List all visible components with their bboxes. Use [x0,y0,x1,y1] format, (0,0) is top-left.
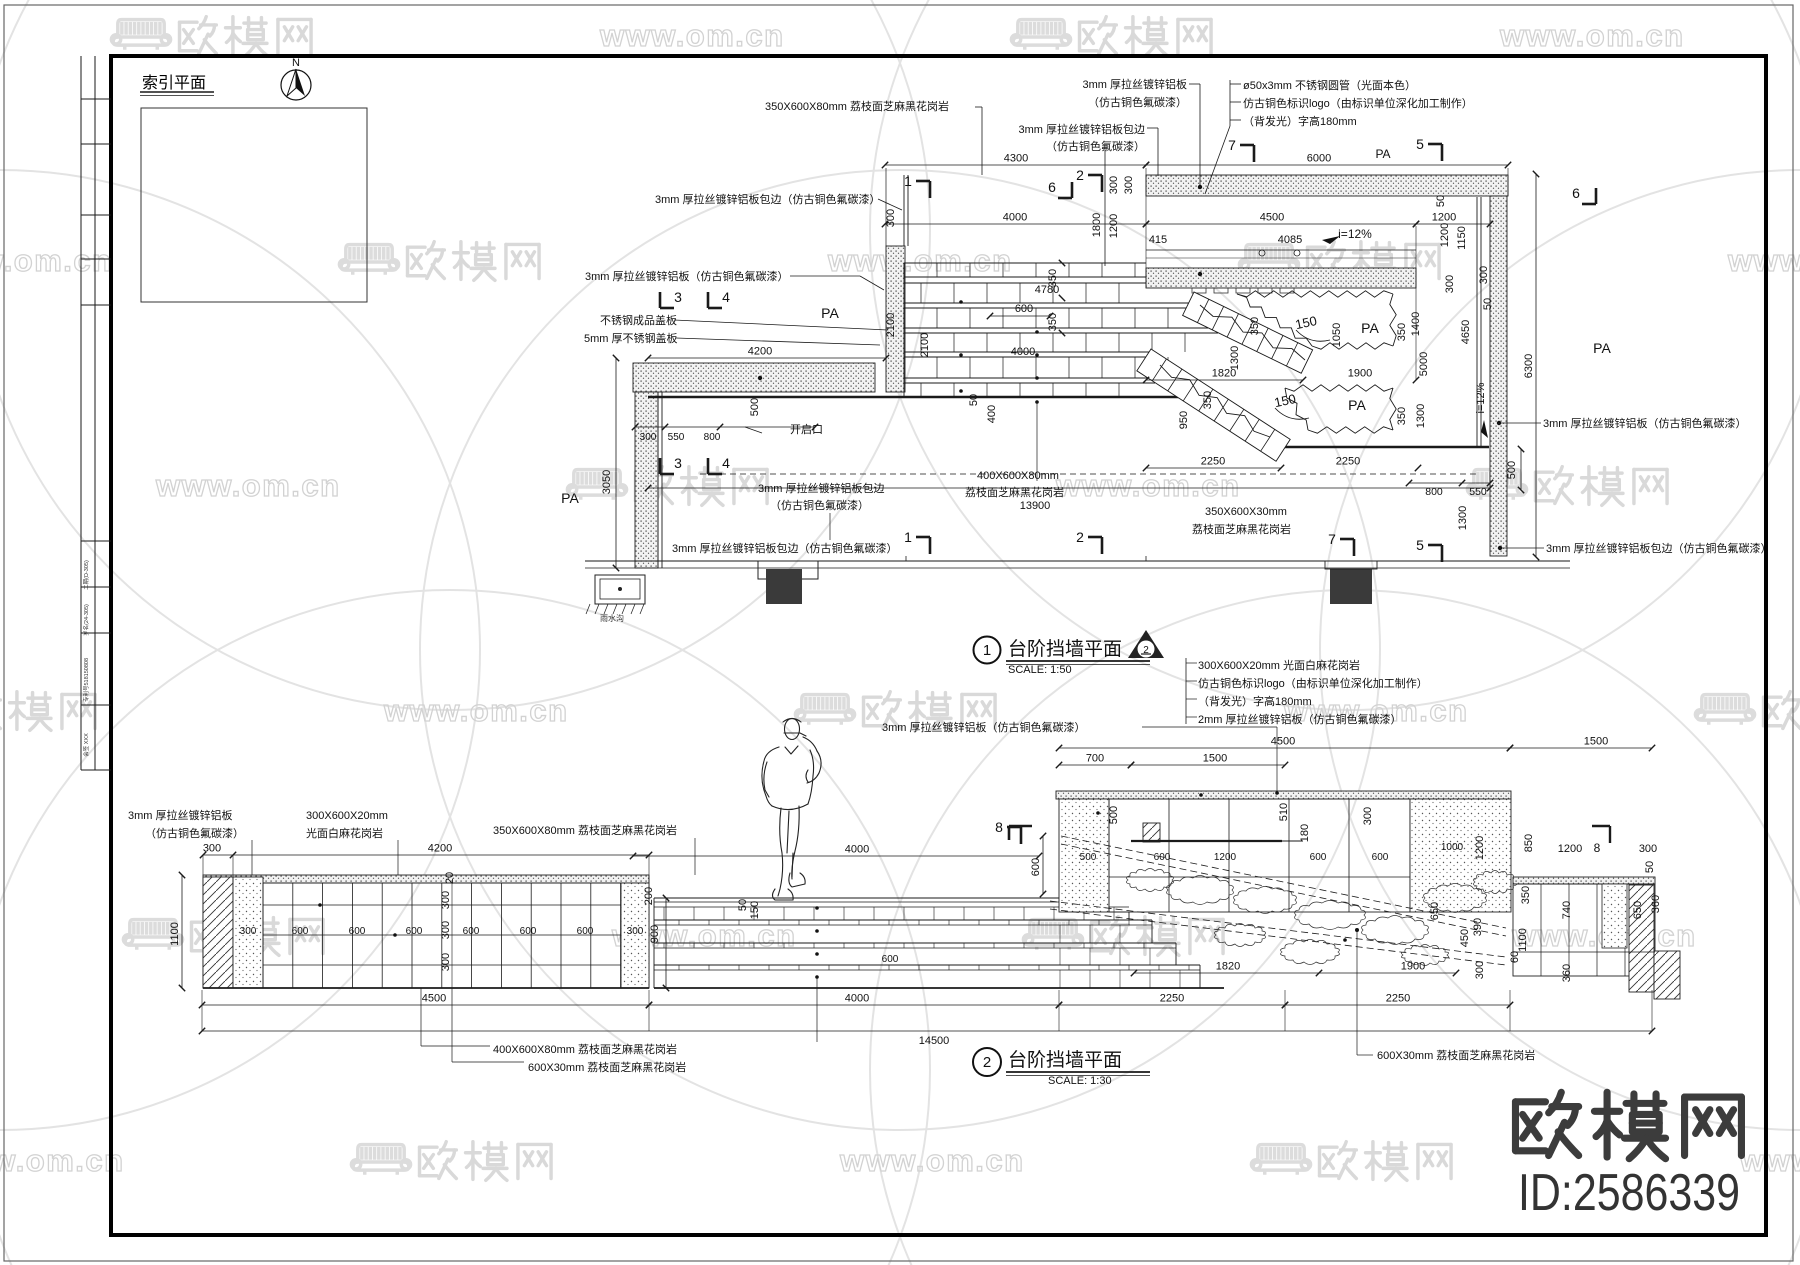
svg-text:350X600X80mm 荔枝面芝麻黑花岗岩: 350X600X80mm 荔枝面芝麻黑花岗岩 [493,823,677,837]
svg-text:300: 300 [627,926,644,937]
svg-text:1: 1 [904,173,912,189]
svg-text:1: 1 [904,529,912,545]
svg-text:850: 850 [1523,834,1535,852]
svg-text:www.om.cn: www.om.cn [827,243,1013,278]
svg-text:800: 800 [704,432,721,443]
svg-text:3mm 厚拉丝镀锌铝板包边（仿古铜色氟碳漆）: 3mm 厚拉丝镀锌铝板包边（仿古铜色氟碳漆） [1546,541,1772,555]
svg-text:仿古铜色标识logo（由标识单位深化加工制作）: 仿古铜色标识logo（由标识单位深化加工制作） [1243,96,1473,110]
svg-text:1150: 1150 [1456,226,1468,250]
svg-text:1500: 1500 [1203,753,1227,765]
svg-text:4650: 4650 [1460,320,1472,344]
svg-text:50: 50 [1435,195,1447,207]
index-plan title, north arrow, index rectangle [140,57,367,302]
svg-text:1200: 1200 [1432,212,1456,224]
svg-text:300: 300 [240,926,257,937]
svg-text:600: 600 [1310,852,1327,863]
svg-text:300X600X20mm 光面白麻花岗岩: 300X600X20mm 光面白麻花岗岩 [1198,658,1360,672]
svg-text:550: 550 [668,432,685,443]
svg-text:300: 300 [640,432,657,443]
svg-text:台阶挡墙平面: 台阶挡墙平面 [1008,638,1122,660]
svg-text:PA: PA [1375,147,1390,161]
human figure on steps [762,719,821,901]
svg-text:5000: 5000 [1418,352,1430,376]
svg-text:www.om.cn: www.om.cn [155,468,341,503]
svg-text:13900: 13900 [1020,500,1051,512]
svg-text:3mm 厚拉丝镀锌铝板包边（仿古铜色氟碳漆）: 3mm 厚拉丝镀锌铝板包边（仿古铜色氟碳漆） [655,192,881,206]
svg-text:6300: 6300 [1523,354,1535,378]
svg-text:510: 510 [1278,803,1290,821]
svg-text:20: 20 [444,872,456,884]
svg-text:1200: 1200 [1558,843,1582,855]
svg-text:（仿古铜色氟碳漆）: （仿古铜色氟碳漆） [1046,139,1145,153]
ground line, drain sink and door blocks below plan [585,556,1570,623]
svg-text:4500: 4500 [1271,736,1295,748]
svg-text:4: 4 [722,455,730,471]
svg-text:600: 600 [520,926,537,937]
svg-text:PA: PA [821,305,839,321]
svg-text:950: 950 [1178,411,1190,429]
svg-text:4300: 4300 [1004,153,1028,165]
svg-text:300: 300 [440,921,452,939]
svg-text:1300: 1300 [1229,346,1241,370]
svg-text:350X600X30mm: 350X600X30mm [1205,506,1287,518]
svg-text:开启口: 开启口 [790,423,823,436]
svg-text:600: 600 [1154,852,1171,863]
om.cn logo and ID:2586339 [1515,1092,1741,1222]
svg-text:SCALE: 1:30: SCALE: 1:30 [1048,1075,1112,1087]
svg-text:雨水沟: 雨水沟 [600,613,624,623]
svg-text:7: 7 [1328,531,1336,547]
svg-text:600: 600 [292,926,309,937]
svg-text:350: 350 [1249,317,1261,335]
svg-text:N: N [292,57,300,69]
svg-text:550: 550 [1469,486,1487,498]
svg-text:i=12%: i=12% [1475,382,1487,413]
svg-text:900: 900 [649,925,661,943]
svg-text:6: 6 [1572,185,1580,201]
svg-text:www.om.cn: www.om.cn [0,1143,125,1178]
svg-text:1800: 1800 [1091,213,1103,237]
svg-text:200: 200 [643,887,655,905]
svg-text:2100: 2100 [885,313,897,337]
svg-text:4085: 4085 [1278,234,1302,246]
svg-text:ø50x3mm 不锈钢圆管（光面本色）: ø50x3mm 不锈钢圆管（光面本色） [1243,78,1416,92]
svg-text:3mm 厚拉丝镀锌铝板（仿古铜色氟碳漆）: 3mm 厚拉丝镀锌铝板（仿古铜色氟碳漆） [882,720,1086,734]
svg-text:4200: 4200 [748,346,772,358]
svg-text:1: 1 [983,642,991,659]
svg-text:14500: 14500 [919,1035,950,1047]
svg-text:www.om.cn: www.om.cn [599,18,785,53]
svg-text:2250: 2250 [1160,993,1184,1005]
svg-text:4000: 4000 [1003,212,1027,224]
svg-text:台阶挡墙平面: 台阶挡墙平面 [1008,1049,1122,1071]
svg-text:360: 360 [1650,895,1662,913]
svg-text:300: 300 [1444,275,1456,293]
svg-text:4: 4 [722,289,730,305]
svg-text:300: 300 [1123,176,1135,194]
svg-text:600: 600 [349,926,366,937]
svg-text:300: 300 [440,953,452,971]
svg-text:2: 2 [983,1054,991,1071]
svg-text:3mm 厚拉丝镀锌铝板（仿古铜色氟碳漆）: 3mm 厚拉丝镀锌铝板（仿古铜色氟碳漆） [1543,416,1747,430]
svg-text:2: 2 [1076,529,1084,545]
svg-text:PA: PA [1593,340,1611,356]
svg-text:500: 500 [1080,852,1097,863]
svg-text:1820: 1820 [1216,961,1240,973]
svg-text:5: 5 [1416,136,1424,152]
svg-text:2250: 2250 [1386,993,1410,1005]
svg-text:300: 300 [1474,961,1486,979]
svg-text:1100: 1100 [1517,928,1529,952]
svg-text:1200: 1200 [1214,852,1237,863]
svg-text:PA: PA [1361,320,1379,336]
svg-text:600X30mm 荔枝面芝麻黑花岗岩: 600X30mm 荔枝面芝麻黑花岗岩 [1377,1048,1535,1062]
svg-text:600: 600 [1030,858,1042,876]
svg-text:50: 50 [1644,861,1656,873]
svg-text:300: 300 [885,209,897,227]
svg-text:www.om.cn: www.om.cn [839,1143,1025,1178]
svg-text:50: 50 [737,899,749,911]
svg-text:1300: 1300 [1457,506,1469,530]
svg-text:740: 740 [1561,901,1573,919]
svg-text:2mm 厚拉丝镀锌铝板（仿古铜色氟碳漆）: 2mm 厚拉丝镀锌铝板（仿古铜色氟碳漆） [1198,712,1402,726]
svg-text:400: 400 [986,405,998,423]
svg-text:50: 50 [1482,298,1494,310]
svg-text:350: 350 [1520,886,1532,904]
svg-text:1050: 1050 [1331,323,1343,347]
svg-text:1200: 1200 [1474,836,1486,860]
svg-text:3050: 3050 [601,470,613,494]
svg-text:400X600X80mm 荔枝面芝麻黑花岗岩: 400X600X80mm 荔枝面芝麻黑花岗岩 [493,1042,677,1056]
svg-text:400X600X80mm: 400X600X80mm [977,470,1059,482]
svg-text:800: 800 [1425,486,1443,498]
svg-text:4200: 4200 [428,843,452,855]
svg-text:350: 350 [1396,323,1408,341]
svg-text:390: 390 [1472,918,1484,936]
svg-text:5mm 厚不锈钢盖板: 5mm 厚不锈钢盖板 [584,331,678,345]
svg-text:1500: 1500 [1584,736,1608,748]
svg-text:2100: 2100 [919,333,931,357]
svg-text:（仿古铜色氟碳漆）: （仿古铜色氟碳漆） [1088,95,1187,109]
svg-text:600: 600 [463,926,480,937]
svg-text:PA: PA [1348,397,1366,413]
svg-text:1000: 1000 [1441,842,1464,853]
svg-text:光面白麻花岗岩: 光面白麻花岗岩 [306,826,383,840]
svg-text:www.om.cn: www.om.cn [0,243,113,278]
svg-text:3mm 厚拉丝镀锌铝板包边: 3mm 厚拉丝镀锌铝板包边 [1019,122,1146,136]
svg-text:650: 650 [1429,902,1441,920]
svg-text:180: 180 [1299,824,1311,842]
svg-text:350: 350 [1047,313,1059,331]
svg-text:50: 50 [968,394,980,406]
drawing 1: stair retaining wall plan (scale 1:50) [561,136,1611,571]
svg-text:www.om.cn: www.om.cn [1727,243,1800,278]
svg-text:350: 350 [1202,391,1214,409]
svg-text:1400: 1400 [1410,312,1422,336]
svg-text:650: 650 [1632,901,1644,919]
svg-text:二期(D-305): 二期(D-305) [83,560,90,590]
svg-text:SCALE: 1:50: SCALE: 1:50 [1008,664,1072,676]
svg-text:（仿古铜色氟碳漆）: （仿古铜色氟碳漆） [770,498,869,512]
svg-text:（背发光）字高180mm: （背发光）字高180mm [1198,694,1312,708]
svg-text:300X600X20mm: 300X600X20mm [306,810,388,822]
svg-text:（背发光）字高180mm: （背发光）字高180mm [1243,114,1357,128]
svg-text:350: 350 [1047,269,1059,287]
svg-text:会签 XXX: 会签 XXX [82,733,90,757]
svg-text:360: 360 [1561,964,1573,982]
svg-text:1900: 1900 [1401,961,1425,973]
svg-text:500: 500 [1108,806,1120,824]
svg-text:1200: 1200 [1108,214,1120,238]
svg-text:600: 600 [1015,303,1033,315]
svg-text:450: 450 [1459,929,1471,947]
drawing 2: stair retaining wall elevation (scale 1:30) [169,719,1680,1063]
svg-text:3mm 厚拉丝镀锌铝板（仿古铜色氟碳漆）: 3mm 厚拉丝镀锌铝板（仿古铜色氟碳漆） [585,269,789,283]
svg-text:仿古铜色标识logo（由标识单位深化加工制作）: 仿古铜色标识logo（由标识单位深化加工制作） [1198,676,1428,690]
svg-text:岁名(24-305): 岁名(24-305) [82,604,90,636]
svg-text:www.om.cn: www.om.cn [1739,1143,1800,1178]
svg-text:350X600X80mm 荔枝面芝麻黑花岗岩: 350X600X80mm 荔枝面芝麻黑花岗岩 [765,99,949,113]
svg-text:4000: 4000 [845,993,869,1005]
svg-text:2: 2 [1076,167,1084,183]
svg-text:3mm 厚拉丝镀锌铝板: 3mm 厚拉丝镀锌铝板 [128,808,233,822]
svg-text:600: 600 [882,954,899,965]
svg-text:3mm 厚拉丝镀锌铝板包边（仿古铜色氟碳漆）: 3mm 厚拉丝镀锌铝板包边（仿古铜色氟碳漆） [672,541,898,555]
svg-text:1200: 1200 [1439,223,1451,247]
svg-text:6: 6 [1048,179,1056,195]
svg-text:3mm 厚拉丝镀锌铝板包边: 3mm 厚拉丝镀锌铝板包边 [758,481,885,495]
svg-text:索引平面: 索引平面 [142,74,206,92]
svg-text:（仿古铜色氟碳漆）: （仿古铜色氟碳漆） [145,826,244,840]
svg-text:1100: 1100 [169,922,181,946]
svg-text:4500: 4500 [1260,212,1284,224]
svg-text:300: 300 [203,843,221,855]
svg-text:专利号518150808: 专利号518150808 [82,658,90,702]
svg-text:2250: 2250 [1201,456,1225,468]
svg-text:4000: 4000 [1011,346,1035,358]
svg-text:600: 600 [406,926,423,937]
svg-text:3: 3 [674,289,682,305]
svg-text:不锈钢成品盖板: 不锈钢成品盖板 [600,313,677,327]
svg-text:www.om.cn: www.om.cn [1055,468,1241,503]
svg-text:PA: PA [561,490,579,506]
svg-text:4500: 4500 [422,993,446,1005]
svg-text:3: 3 [674,455,682,471]
svg-text:300: 300 [1362,807,1374,825]
svg-text:i=12%: i=12% [1338,227,1372,241]
svg-text:500: 500 [1506,461,1518,479]
svg-text:600: 600 [1372,852,1389,863]
svg-text:8: 8 [995,819,1003,835]
svg-text:415: 415 [1149,234,1167,246]
svg-text:荔枝面芝麻黑花岗岩: 荔枝面芝麻黑花岗岩 [1192,522,1291,536]
svg-text:8: 8 [1594,841,1601,855]
svg-text:3mm 厚拉丝镀锌铝板: 3mm 厚拉丝镀锌铝板 [1083,77,1188,91]
svg-text:150: 150 [749,901,761,919]
svg-text:7: 7 [1228,137,1236,153]
svg-text:4000: 4000 [845,844,869,856]
svg-text:300: 300 [440,891,452,909]
svg-text:ID:2586339: ID:2586339 [1518,1164,1740,1222]
svg-text:5: 5 [1416,537,1424,553]
svg-text:www.om.cn: www.om.cn [1499,18,1685,53]
svg-text:1900: 1900 [1348,368,1372,380]
caption 2: 台阶挡墙平面 SCALE 1:30 [973,1048,1150,1087]
svg-text:www.om.cn: www.om.cn [383,693,569,728]
svg-text:1300: 1300 [1415,404,1427,428]
svg-text:350: 350 [1396,407,1408,425]
svg-text:荔枝面芝麻黑花岗岩: 荔枝面芝麻黑花岗岩 [965,485,1064,499]
svg-text:2250: 2250 [1336,456,1360,468]
svg-text:600: 600 [577,926,594,937]
svg-text:300: 300 [1478,266,1490,284]
svg-text:300: 300 [1108,176,1120,194]
caption 1: 台阶挡墙平面 SCALE 1:50 [974,630,1165,676]
svg-text:60: 60 [1509,951,1521,963]
svg-text:500: 500 [749,398,761,416]
svg-text:300: 300 [1639,843,1657,855]
svg-text:6000: 6000 [1307,153,1331,165]
svg-text:700: 700 [1086,753,1104,765]
svg-text:600X30mm 荔枝面芝麻黑花岗岩: 600X30mm 荔枝面芝麻黑花岗岩 [528,1060,686,1074]
